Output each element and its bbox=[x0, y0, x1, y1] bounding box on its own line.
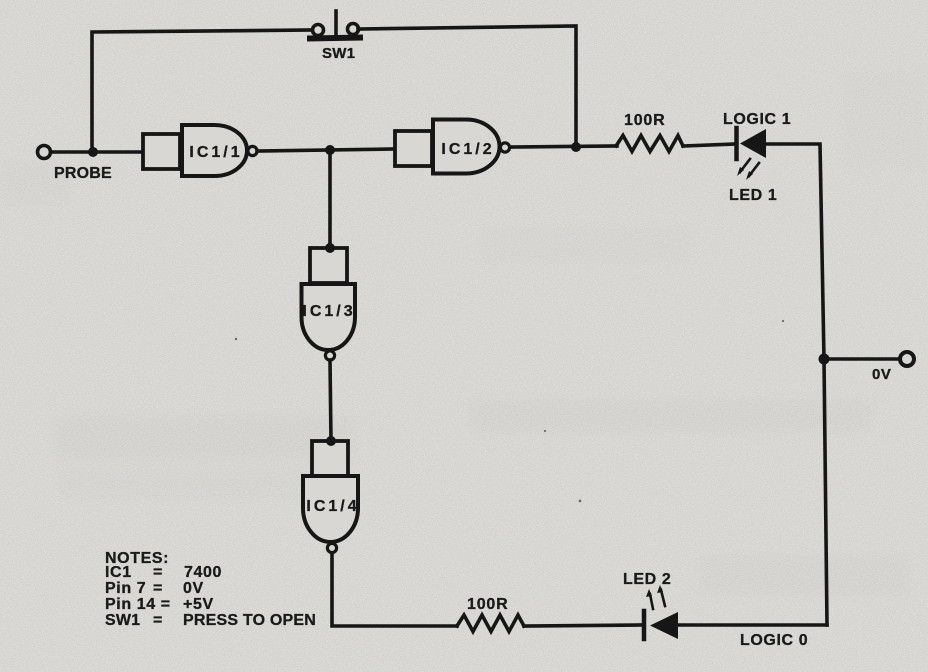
svg-text:SW1=PRESS TO OPEN: SW1=PRESS TO OPEN bbox=[105, 612, 316, 629]
wire: resistor R2 to LED2 bbox=[524, 625, 642, 626]
paper show-through smudges bbox=[55, 416, 355, 460]
wire: probe to IC1/1 input bbox=[51, 150, 143, 154]
switch SW1 bbox=[310, 11, 360, 39]
resistor R1 100R bbox=[616, 136, 683, 152]
node: 0V junction bbox=[819, 354, 830, 365]
wire: LED2 to bottom-right corner bbox=[678, 623, 827, 627]
node: IC1/4 input junction bbox=[326, 436, 336, 446]
svg-text:100R: 100R bbox=[467, 596, 508, 613]
svg-text:PROBE: PROBE bbox=[54, 165, 112, 182]
wire: IC1/3 output down to IC1/4 bbox=[330, 360, 331, 441]
svg-text:IC1/2: IC1/2 bbox=[441, 141, 494, 158]
svg-text:Pin 14 =+5V: Pin 14 =+5V bbox=[105, 596, 214, 613]
svg-text:LOGIC 0: LOGIC 0 bbox=[740, 632, 808, 649]
0V terminal bbox=[900, 352, 914, 366]
node: branch to IC1/3 bbox=[325, 145, 335, 155]
svg-text:100R: 100R bbox=[624, 112, 665, 129]
nand gate IC1/3 bbox=[302, 248, 356, 360]
notes text bbox=[105, 550, 316, 629]
wire: to 0V terminal bbox=[824, 357, 900, 361]
LED D1 bbox=[737, 128, 767, 180]
wire: branch down to IC1/3 bbox=[328, 150, 332, 247]
actuator bbox=[334, 11, 338, 37]
wire: top-left vertical from probe junction up to top rail bbox=[92, 30, 313, 152]
svg-text:LED 1: LED 1 bbox=[729, 187, 777, 204]
svg-text:SW1: SW1 bbox=[322, 45, 355, 62]
nand gate IC1/2 bbox=[395, 120, 510, 174]
svg-text:LED 2: LED 2 bbox=[623, 571, 671, 588]
nand gate IC1/4 bbox=[303, 441, 358, 553]
svg-text:IC1/3: IC1/3 bbox=[302, 303, 355, 320]
node: SW1 rail joins output bbox=[571, 142, 581, 152]
svg-text:IC1/1: IC1/1 bbox=[189, 144, 242, 161]
contact circles bbox=[313, 25, 324, 36]
node: IC1/3 input junction bbox=[325, 243, 335, 253]
wire: top rail right of SW1 down to IC1/2 output node bbox=[358, 26, 576, 147]
LED D2 bbox=[644, 585, 678, 639]
emission arrows bbox=[737, 159, 759, 180]
wire: IC1/2 output to resistor bbox=[510, 146, 617, 147]
probe terminal bbox=[38, 146, 51, 159]
node: probe junction bbox=[88, 147, 98, 157]
wire: LED1 to right rail, down to 0V node and LED2 corner bbox=[766, 144, 827, 625]
resistor R2 100R bbox=[457, 615, 524, 632]
svg-text:Pin 7=0V: Pin 7=0V bbox=[105, 580, 204, 597]
emission arrows bbox=[646, 585, 665, 609]
wire: IC1/1 output to IC1/2 input bbox=[257, 149, 395, 151]
bridging bar bbox=[310, 38, 360, 39]
svg-text:IC1/4: IC1/4 bbox=[306, 498, 359, 515]
svg-text:0V: 0V bbox=[872, 366, 891, 383]
wire: resistor to LED1 bbox=[683, 144, 735, 146]
paper specks bbox=[235, 320, 784, 503]
nand gate IC1/1 bbox=[143, 125, 257, 176]
wire: IC1/4 output down and along bottom to resistor R2 bbox=[332, 553, 457, 626]
svg-text:LOGIC 1: LOGIC 1 bbox=[723, 111, 791, 128]
